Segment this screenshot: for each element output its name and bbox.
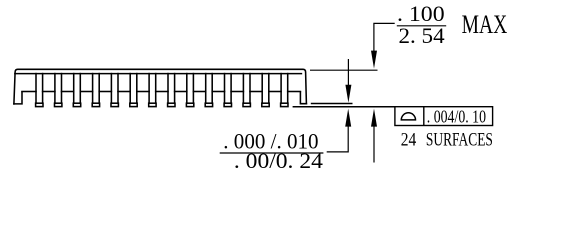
lead 9 foot [186,103,193,106]
fraction bar for standoff dimension [220,152,324,154]
lead 3 side lines [74,74,81,104]
lead 14 side lines [281,74,288,104]
svg-text:2. 54: 2. 54 [399,23,445,48]
package body top edge line 1 with rounded corners and end-cap outer edges [14,69,307,104]
svg-text:SURFACES: SURFACES [426,130,493,150]
dimension arrow down to package bottom line [345,85,351,103]
dimension line above package bottom line (for standoff) [347,59,349,85]
lead 14 foot [281,103,288,106]
fraction bar for .100/2.54 [397,25,446,27]
lead 11 foot [224,103,231,106]
lead 7 side lines [149,74,156,104]
lead 8 foot [168,103,175,106]
svg-text:. 00/0. 24: . 00/0. 24 [234,148,323,173]
lead 3 foot [73,103,80,106]
package body bottom web line [22,91,300,93]
dimension arrow down to top extension line [371,51,377,69]
lead 7 foot [149,103,156,106]
lead 10 side lines [206,74,213,104]
lead 6 foot [130,103,137,106]
lead 10 foot [205,103,212,106]
lead 4 foot [92,103,99,106]
lead 2 foot [55,103,62,106]
svg-text:. 004/0. 10: . 004/0. 10 [427,107,486,127]
lead 1 side lines [36,74,43,104]
seating plane line [293,106,395,108]
lead 1 foot [36,103,43,106]
svg-text:24: 24 [401,130,417,150]
extension line from package top surface [310,69,378,71]
package right end cap bottom and inner edge [300,92,306,104]
lead 2 side lines [55,74,62,104]
dimension line below seating plane (for .100/2.54) [373,126,375,163]
lead 13 foot [262,103,269,106]
package left end cap bottom and inner edge [14,92,22,104]
lead 11 side lines [225,74,232,104]
package body top edge line 2 [15,73,302,75]
lead 4 side lines [93,74,100,104]
lead 12 foot [243,103,250,106]
lead 13 side lines [262,74,269,104]
leader line from .000/.010 text [327,126,349,152]
lead 5 foot [111,103,118,106]
dimension arrow up to seating plane line [371,109,377,127]
dimension arrow up to seating plane (standoff) [345,109,351,127]
extension line from package bottom surface [311,103,353,105]
profile of a line GD&amp;T symbol [401,113,415,120]
feature control frame box [395,107,493,126]
lead 8 side lines [168,74,175,104]
lead 5 side lines [111,74,118,104]
lead 6 side lines [130,74,137,104]
leader line from .100/2.54 text [374,23,395,52]
svg-text:MAX: MAX [462,9,508,39]
lead 9 side lines [187,74,194,104]
lead 12 side lines [243,74,250,104]
